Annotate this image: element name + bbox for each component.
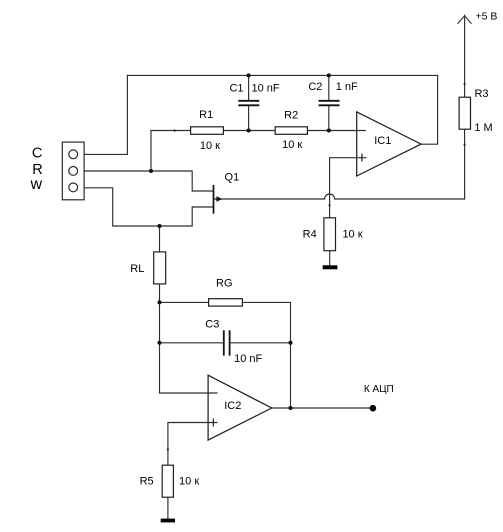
junction C1 top [247,73,251,77]
svg-text:w: w [30,176,43,193]
label Q1 [225,171,240,183]
label R2 [284,110,298,122]
junction C2 bottom [327,128,331,132]
resistor RL [154,252,166,284]
node tick R4 top [329,204,331,206]
node tick R3 lower [464,143,466,145]
junction pin R branch [149,169,153,173]
label IC1 [374,135,391,147]
svg-text:10 nF: 10 nF [252,82,280,94]
power +5V [458,16,472,24]
wire RL bottom to IC2 inverting input [160,284,218,393]
wire C3 right lead [230,342,291,344]
value 1 M R3 [474,122,492,134]
wire IC1 output to top net [421,75,438,144]
junction C3 right [288,341,292,345]
svg-text:1 nF: 1 nF [336,81,358,93]
value 10 к R1 [200,140,220,152]
svg-text:К АЦП: К АЦП [364,384,394,395]
svg-text:1 M: 1 M [474,122,492,134]
resistor R2 [275,127,307,135]
wire pin R row [84,171,213,191]
label К АЦП [364,384,394,395]
wire RL column [159,226,161,252]
wire R1 left branch [151,131,191,172]
label C [32,145,42,161]
label R5 [140,476,154,488]
svg-text:C1: C1 [229,82,243,94]
wire +5V to R3 [464,15,466,97]
junction RL top [157,224,161,228]
label C2 [308,81,322,93]
svg-text:IC1: IC1 [374,135,391,147]
wire C3 left lead [160,342,224,344]
capacitor C1 [238,101,259,106]
wire IC2 noninverting input to R5 [168,423,217,466]
junction C3 left [157,341,161,345]
value 1 nF C2 [336,81,358,93]
svg-text:R4: R4 [303,229,317,241]
wire R1 to R2 [223,130,275,132]
wire C1 leads [248,75,250,130]
wire R3 to drain net [464,129,466,199]
svg-text:10 к: 10 к [200,140,220,152]
junction C1 bottom [247,128,251,132]
resistor R3 [459,97,470,129]
label R1 [199,109,213,121]
resistor R1 [191,127,224,135]
wire R5 to ground [167,497,169,518]
junction RL bottom [157,300,161,304]
svg-text:C2: C2 [308,81,322,93]
wire IC1 noninverting input to R4 [330,158,366,218]
capacitor C2 [319,101,340,106]
wire pin C to top net [84,75,127,154]
terminal К АЦП [370,405,377,412]
svg-text:10 к: 10 к [282,139,302,151]
label +5 В [476,10,498,22]
svg-text:RG: RG [216,277,233,289]
value 10 к R4 [342,229,362,241]
ground below R4 [323,265,338,269]
value 10 nF C1 [252,82,280,94]
svg-text:Q1: Q1 [225,171,240,183]
svg-text:C: C [32,145,42,161]
wire RG row [160,301,209,303]
node tick R3 upper [464,83,466,85]
op-amp IC2 [208,375,272,440]
wire IC2 output to terminal [272,407,370,409]
connector X1 [62,142,84,200]
svg-text:10 к: 10 к [179,476,199,488]
label w [30,176,43,193]
junction C2 top [327,73,331,77]
svg-text:10 nF: 10 nF [234,353,262,365]
label C1 [229,82,243,94]
resistor RG [209,299,243,306]
svg-text:R5: R5 [140,476,154,488]
svg-text:R1: R1 [199,109,213,121]
label R3 [474,88,488,100]
svg-text:C3: C3 [205,318,219,330]
svg-text:+5 В: +5 В [476,10,498,22]
node tick R5 top [167,448,169,450]
label IC2 [224,400,241,412]
wire RG to feedback column [242,302,290,408]
svg-text:R3: R3 [474,88,488,100]
ground below R5 [161,519,175,523]
wire C2 leads [328,75,330,130]
value 10 к R2 [282,139,302,151]
svg-text:RL: RL [130,263,144,275]
resistor R5 [162,465,173,497]
node tick R1 lead [173,130,175,132]
junction IC2 output [288,406,292,410]
wire pin W row [84,188,213,226]
wire R2 to IC1 inverting input [307,130,365,132]
label RL [130,263,144,275]
transistor Q1 [214,185,223,214]
label R4 [303,229,317,241]
svg-text:10 к: 10 к [342,229,362,241]
svg-text:R2: R2 [284,110,298,122]
label R [32,162,42,178]
wire Q1 drain to R3 with hop [214,194,465,199]
value 10 nF C3 [234,353,262,365]
svg-text:IC2: IC2 [224,400,241,412]
wire top feedback net [127,74,437,76]
op-amp IC1 [357,112,421,176]
value 10 к R5 [179,476,199,488]
label C3 [205,318,219,330]
wire R4 to ground [329,251,331,266]
label RG [216,277,233,289]
resistor R4 [324,218,336,251]
capacitor C3 [224,330,230,355]
